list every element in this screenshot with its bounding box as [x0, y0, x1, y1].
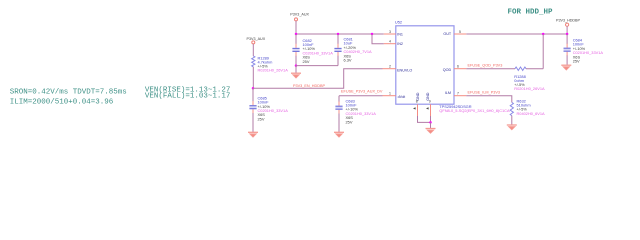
svg-text:R0201H0_26V1A: R0201H0_26V1A [514, 86, 545, 91]
node EN junction [252, 87, 255, 90]
ground under C683 [334, 132, 344, 137]
capacitor C684 [564, 38, 604, 64]
svg-text:4: 4 [389, 40, 391, 44]
ground under IC [426, 129, 436, 134]
svg-text:6.3V: 6.3V [344, 58, 352, 63]
wire C682 bottom to gnd junction [295, 56, 297, 66]
svg-text:1: 1 [389, 92, 391, 96]
pin stub QOD pin6 [454, 68, 466, 70]
svg-text:EFUSE_P3V3_AUX_DV: EFUSE_P3V3_AUX_DV [341, 90, 383, 94]
wire down to C683 [338, 96, 340, 102]
wire R1289 to EN node [252, 67, 254, 89]
power flag P3V3_AUX (top middle) [290, 13, 309, 21]
svg-text:3: 3 [389, 30, 391, 34]
pin stub IN1 pin3 [384, 33, 396, 35]
wire IN2 jog [372, 34, 384, 44]
svg-text:7: 7 [457, 92, 459, 96]
svg-text:2: 2 [389, 65, 391, 69]
pin stub ENUVLO pin2 [383, 68, 396, 70]
op IC U52 TPS25942 [395, 20, 510, 113]
wire ILM net [466, 96, 512, 103]
resistor R1289 [252, 55, 288, 72]
svg-text:VEN(FALL)=1.03~1.17: VEN(FALL)=1.03~1.17 [145, 93, 231, 101]
svg-text:FOR HDD_HP: FOR HDD_HP [508, 9, 554, 17]
wire P3V3_AUX down to IN net [295, 21, 297, 34]
wire C683 to ground [338, 114, 340, 133]
power flag P3V3_HDDBP [556, 19, 581, 27]
power flag P3V3_AUX (left) [247, 37, 266, 44]
pin stub ILM pin7 [454, 95, 466, 97]
pin stub IN2 pin4 [384, 43, 396, 45]
svg-text:OUT: OUT [443, 32, 452, 36]
svg-text:QOD: QOD [443, 68, 452, 72]
svg-text:6: 6 [457, 65, 459, 69]
ground under R632 [507, 125, 517, 130]
ground under C684 [561, 65, 571, 70]
node junction OUT/QOD [542, 33, 545, 36]
wire OUT net [466, 33, 567, 35]
node junction at C681 top [337, 33, 340, 36]
svg-text:ILIM=2000/510+0.04=3.96: ILIM=2000/510+0.04=3.96 [10, 98, 114, 106]
svg-text:SRON=0.42V/ms TDVDT=7.85ms: SRON=0.42V/ms TDVDT=7.85ms [10, 89, 127, 97]
pin stub dVdt pin1 [383, 95, 396, 97]
wire R632 to ground [511, 116, 513, 125]
wire IN net horizontal [296, 33, 384, 35]
node junction at C684 [566, 33, 569, 36]
resistor R1288 [514, 67, 545, 91]
svg-text:8: 8 [416, 100, 418, 104]
svg-text:P3V3_EN_HDDBP: P3V3_EN_HDDBP [293, 84, 326, 88]
wire dVdt net EFUSE_P3V3_AUX_DV [339, 95, 383, 97]
wire GND pins tie [418, 116, 431, 122]
node junction at C682 top [295, 33, 298, 36]
capacitor C685 [249, 95, 288, 121]
svg-text:dVdt: dVdt [398, 95, 406, 99]
ground under C682 [291, 73, 301, 78]
node junction C682/C681 gnd [295, 64, 298, 67]
svg-text:EFUSE_ILM_P3V3: EFUSE_ILM_P3V3 [468, 91, 501, 95]
svg-text:QFN8-0_5-SQ2(EP0_3X1_6H0_8)C1C: QFN8-0_5-SQ2(EP0_3X1_6H0_8)C1CA [439, 108, 510, 113]
wire EN node down to C685 [252, 88, 254, 101]
wire to ground [295, 66, 297, 73]
svg-text:9: 9 [429, 100, 431, 104]
wire flag to OUT [566, 26, 568, 34]
node junction at IN1/IN2 split [371, 33, 374, 36]
svg-text:P3V3_HDDBP: P3V3_HDDBP [556, 19, 581, 23]
svg-text:R0402H0_6V1A: R0402H0_6V1A [517, 111, 546, 116]
svg-text:5: 5 [459, 30, 461, 34]
pin stub GND pin8 [417, 104, 419, 116]
wire QOD horizontal [466, 68, 515, 70]
wire gnd tie C682-C681 [296, 65, 338, 67]
wire down to C684 [566, 34, 568, 44]
wire C685 to ground [252, 113, 254, 132]
svg-text:25V: 25V [258, 116, 265, 121]
pin stub GND pin9 [430, 104, 432, 116]
svg-text:U52: U52 [395, 20, 402, 25]
svg-text:P3V3_AUX: P3V3_AUX [290, 13, 309, 17]
svg-text:25V: 25V [303, 59, 310, 64]
capacitor C681 [334, 37, 372, 63]
wire C684 to ground [566, 55, 568, 64]
capacitor C683 [335, 98, 376, 124]
resistor R632 [510, 98, 545, 116]
wire QOD feedback vertical [542, 34, 544, 69]
capacitor C682 [292, 38, 333, 64]
svg-text:IN2: IN2 [397, 42, 403, 46]
wire P3V3_AUX to R1289 [252, 44, 254, 56]
svg-text:EFUSE_QOD_P3V3: EFUSE_QOD_P3V3 [468, 64, 503, 68]
svg-text:P3V3_AUX: P3V3_AUX [247, 37, 266, 41]
wire R1288 to OUT vertical [526, 68, 543, 70]
svg-text:ENUVLO: ENUVLO [397, 69, 412, 73]
node junction GND [429, 121, 432, 124]
wire C682 column [295, 34, 297, 44]
ground under C685 [248, 132, 258, 137]
svg-text:25V: 25V [346, 119, 353, 124]
pin stub OUT pin5 [454, 33, 466, 35]
svg-text:IN1: IN1 [397, 33, 403, 37]
wire EN horizontal P3V3_EN_HDDBP [253, 69, 383, 89]
pin arrow marks on GND pins [413, 107, 416, 109]
wire to IC ground [430, 122, 432, 128]
svg-text:R0201H0_26V1A: R0201H0_26V1A [258, 67, 289, 72]
svg-text:25V: 25V [573, 59, 580, 64]
wire C681 column [337, 34, 339, 44]
svg-text:ILM: ILM [445, 91, 451, 95]
wire C681 bottom [337, 56, 339, 66]
